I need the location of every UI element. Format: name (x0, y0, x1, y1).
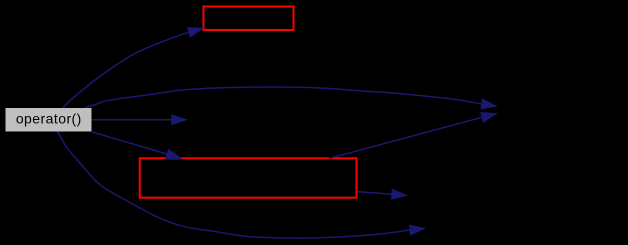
svg-text:operator(): operator() (16, 111, 82, 127)
node: operator() (current function, grey box) (6, 108, 92, 132)
edge from operator() straight right to callee node B (92, 115, 187, 125)
edge from operator() arcing right to callee node A (85, 87, 497, 109)
edge from large red node up-right to callee node A (329, 113, 497, 159)
edge from operator() up to top red node (63, 27, 203, 107)
node: small red box (top callee) (204, 7, 294, 31)
edge from operator() down to large red node (92, 132, 182, 159)
node: large red box (lower callee) (140, 158, 357, 197)
edge from large red node right to callee node D (358, 189, 408, 199)
edge from operator() arcing along bottom to callee node C (58, 132, 426, 239)
